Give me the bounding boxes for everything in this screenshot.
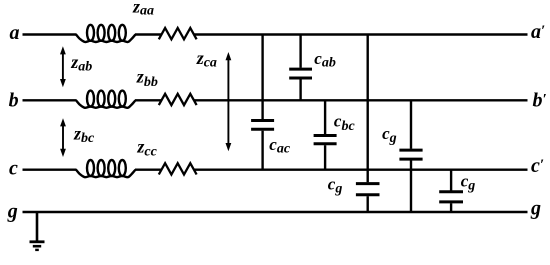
wire line c right segment [194,168,528,170]
wire ground line g [23,211,528,213]
mutual coupling arrow z_bc [62,125,64,150]
wire vertical branch c_g phase a upper [367,35,369,183]
wire vertical branch c_bc lower [324,145,326,170]
capacitor c_g (phase b) [399,149,422,152]
capacitor c_bc [314,134,337,137]
wire line b middle segment [135,99,162,101]
wire line a middle segment [135,33,162,35]
wire line b right segment [194,99,528,101]
wire vertical branch c_ac upper [261,35,263,120]
wire vertical branch c_g phase c lower [450,203,452,212]
wire vertical branch c_ab upper [299,35,301,68]
wire line a left segment [23,33,77,35]
wire line c left segment [23,168,77,170]
wire vertical branch c_ac lower [261,131,263,170]
wire line a right segment [194,33,528,35]
wire vertical branch c_g phase a lower [367,196,369,212]
resistor zigzag Rc [159,163,197,174]
wire line c middle segment [135,168,162,170]
wire vertical branch c_bc upper [324,100,326,134]
inductor coil La [76,35,136,43]
svg-text:g: g [7,201,18,223]
resistor zigzag Rb [159,94,197,105]
mutual coupling arrow z_ca [227,59,229,145]
inductor coil Lc [76,170,136,178]
svg-text:g: g [530,198,541,220]
inductor coil Lb [76,100,136,108]
svg-text:zaa: zaa [132,0,154,19]
mutual coupling arrow z_ab [62,53,64,81]
svg-text:a: a [10,22,20,44]
wire line b left segment [23,99,77,101]
svg-text:b: b [9,89,19,111]
ground symbol [36,212,39,242]
capacitor c_ac [251,119,274,122]
wire vertical branch c_g phase c upper [450,170,452,191]
wire vertical branch c_g phase b upper [410,100,412,149]
svg-text:c: c [9,158,18,180]
capacitor c_g (phase a) [356,182,380,185]
capacitor c_g (phase c) [439,190,463,193]
capacitor c_ab [289,68,312,71]
wire vertical branch c_ab lower [299,80,301,101]
resistor zigzag Ra [159,28,197,39]
wire vertical branch c_g phase b lower [410,161,412,213]
